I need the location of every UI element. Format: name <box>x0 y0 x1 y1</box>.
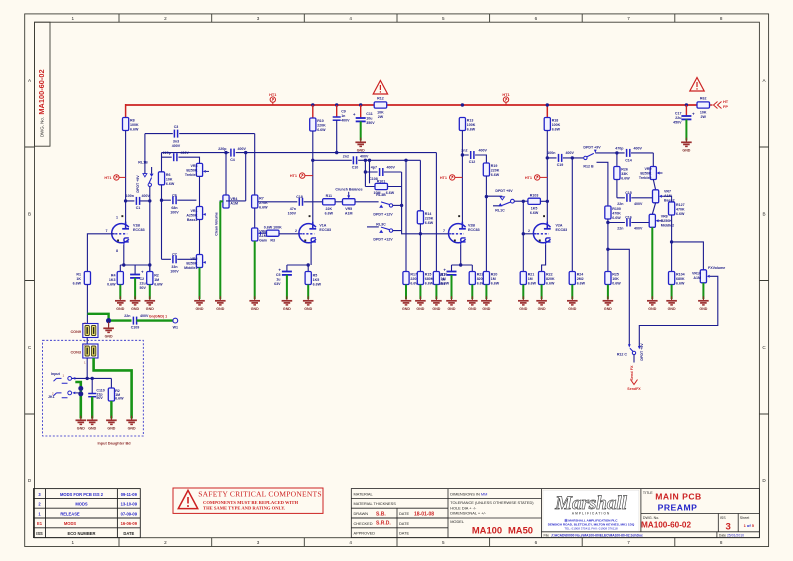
wire: C117 green to ground <box>451 275 453 299</box>
svg-text:6.6W: 6.6W <box>530 211 539 215</box>
svg-text:100V: 100V <box>170 269 179 273</box>
svg-text:FXVolume: FXVolume <box>708 266 725 270</box>
wire: R11 to VR5 <box>335 201 342 203</box>
svg-text:6.6W: 6.6W <box>425 282 434 286</box>
svg-text:VR1: VR1 <box>191 209 198 213</box>
svg-text:6: 6 <box>535 16 538 21</box>
svg-text:B: B <box>28 212 31 217</box>
ground (C117) <box>446 296 457 311</box>
svg-text:R26: R26 <box>621 168 628 172</box>
svg-text:FP: FP <box>723 104 728 109</box>
pot VR3 Treble1 <box>196 163 202 176</box>
svg-text:6.6W: 6.6W <box>154 283 163 287</box>
border column numbers top <box>72 16 723 21</box>
ground (input net) <box>108 322 110 327</box>
capacitor C19 (100n plate coupling) <box>559 154 562 162</box>
svg-text:CON9: CON9 <box>70 330 81 334</box>
Marshall logo <box>543 490 639 531</box>
capacitor C12 <box>471 151 474 159</box>
svg-text:ECC83: ECC83 <box>556 228 568 232</box>
resistor R19 <box>483 163 489 176</box>
revision table grid <box>34 489 141 538</box>
wire: RL3C out to V2B grid <box>393 231 449 234</box>
warning triangle left <box>373 81 387 95</box>
wire: RL1C out <box>514 200 528 202</box>
svg-text:22n: 22n <box>124 314 130 318</box>
wire: HT rail stub to HT-FP <box>710 104 713 106</box>
wire: CON3 pin green to board ground <box>94 358 132 419</box>
svg-text:22n: 22n <box>617 202 623 206</box>
title block row lines left section <box>351 489 448 538</box>
svg-text:File: File <box>544 533 550 537</box>
resistor R127 <box>669 202 675 215</box>
svg-text:DIMENSIONAL + +/-: DIMENSIONAL + +/- <box>450 511 486 516</box>
svg-text:R24: R24 <box>577 273 584 277</box>
svg-text:100K: 100K <box>130 123 139 127</box>
wire: RL3B out <box>393 204 402 206</box>
resistor R20 <box>483 272 489 285</box>
wire: VR8 green to ground <box>651 227 653 299</box>
svg-text:ECC83: ECC83 <box>468 228 480 232</box>
svg-text:MODS: MODS <box>64 521 77 526</box>
svg-text:R14: R14 <box>425 212 432 216</box>
wire: C5 green to ground <box>286 275 288 299</box>
svg-text:5: 5 <box>442 16 445 21</box>
svg-text:HT1: HT1 <box>440 176 447 180</box>
wire: V2A grid <box>523 233 536 235</box>
svg-text:33n: 33n <box>171 265 177 269</box>
wire: C17 to ground (green) <box>685 119 687 140</box>
svg-text:6.6W: 6.6W <box>313 283 322 287</box>
wire: C14 to Treble2 <box>652 153 654 167</box>
svg-text:VR5: VR5 <box>345 207 352 211</box>
resistor R5 <box>305 272 311 285</box>
resistor R1 <box>84 272 90 285</box>
svg-text:4: 4 <box>349 16 352 21</box>
svg-text:C7: C7 <box>172 253 177 257</box>
resistor R6 <box>158 172 164 185</box>
wire: R110 green to ground <box>110 401 112 419</box>
svg-text:MA50: MA50 <box>508 525 533 536</box>
svg-text:R12 C: R12 C <box>617 353 628 357</box>
svg-text:7: 7 <box>627 16 630 21</box>
svg-text:6.6W: 6.6W <box>676 282 685 286</box>
pot VR4 Clean Volume <box>223 195 229 208</box>
svg-text:400V: 400V <box>634 227 643 231</box>
svg-text:22u: 22u <box>140 282 146 286</box>
svg-text:C14: C14 <box>625 159 632 163</box>
svg-text:R12 B: R12 B <box>583 165 594 169</box>
svg-text:HT1: HT1 <box>525 176 532 180</box>
resistor R12 (series in HT rail) <box>374 102 387 108</box>
svg-text:400V: 400V <box>172 144 181 148</box>
pot VR8 Middle2 <box>649 214 655 227</box>
svg-text:A1M: A1M <box>664 194 672 198</box>
pot VR5 Crunch Volume <box>343 199 356 205</box>
svg-text:350V: 350V <box>366 121 375 125</box>
resistor R24 <box>569 272 575 285</box>
wire: jack sleeve green <box>75 382 81 419</box>
svg-text:C16: C16 <box>625 216 632 220</box>
svg-text:6.6W: 6.6W <box>491 173 500 177</box>
svg-text:DATE: DATE <box>123 531 134 536</box>
svg-text:0.6W: 0.6W <box>107 283 116 287</box>
ground (VR6) <box>249 296 260 311</box>
svg-text:6.6W: 6.6W <box>166 182 175 186</box>
capacitor C5 (electrolytic) <box>282 272 292 275</box>
wire: HT rail right segment <box>387 104 697 106</box>
svg-text:R13: R13 <box>467 119 474 123</box>
svg-text:C18: C18 <box>296 195 303 199</box>
svg-text:Input: Input <box>51 372 61 376</box>
svg-text:680K: 680K <box>676 277 685 281</box>
net label HT1 on rail left <box>270 97 275 102</box>
pot VR7 Bass2 <box>653 190 659 203</box>
svg-text:RL3C: RL3C <box>376 222 386 226</box>
capacitor C3 <box>173 130 179 138</box>
ground (VR2) <box>194 296 205 311</box>
capacitor C16 <box>608 222 649 224</box>
svg-text:A250K: A250K <box>186 214 198 218</box>
svg-text:C5: C5 <box>276 273 281 277</box>
svg-text:R7: R7 <box>259 197 264 201</box>
wire: R5 green to ground <box>307 285 309 300</box>
wire: R15 green to ground <box>419 285 421 300</box>
capacitor C10 on bus3 <box>352 156 358 164</box>
svg-text:V2A: V2A <box>556 223 563 227</box>
relay R12C <box>628 344 631 347</box>
svg-text:6.6W: 6.6W <box>73 282 82 286</box>
svg-text:DPDT +9V: DPDT +9V <box>136 175 140 193</box>
resistor R21 <box>520 272 526 285</box>
svg-text:2: 2 <box>164 540 167 545</box>
wire: VR6 green to ground <box>254 241 256 299</box>
svg-text:Gn(GND) 1: Gn(GND) 1 <box>149 315 167 319</box>
svg-text:ECO NUMBER: ECO NUMBER <box>68 531 96 536</box>
svg-text:DPDT +12V: DPDT +12V <box>373 238 393 242</box>
svg-text:HT1: HT1 <box>104 176 111 180</box>
svg-text:Bass1: Bass1 <box>187 218 198 222</box>
svg-text:6.6W: 6.6W <box>552 128 561 132</box>
wire: R25 green to ground <box>607 285 609 300</box>
junction dots on rail <box>311 103 314 106</box>
svg-text:820K: 820K <box>546 277 555 281</box>
svg-text:1: 1 <box>38 511 41 516</box>
svg-text:TITLE: TITLE <box>643 491 653 495</box>
svg-text:1M: 1M <box>528 277 533 281</box>
svg-text:A1M: A1M <box>259 234 267 238</box>
wire: bus3 end drop to R14 <box>419 160 421 211</box>
svg-text:7: 7 <box>627 540 630 545</box>
svg-text:47n: 47n <box>290 207 296 211</box>
svg-text:22u: 22u <box>675 116 681 120</box>
svg-text:2n2: 2n2 <box>343 155 349 159</box>
wire: R2 green to ground <box>149 285 151 300</box>
wire: R3 to V1A grid <box>279 233 300 235</box>
wire: CON9 to CON3 <box>86 338 88 345</box>
pot VR10 FX Volume <box>700 270 706 283</box>
wire: R21 drop <box>522 201 524 271</box>
wire: R104 green to ground <box>671 285 673 300</box>
relay RL3B <box>379 205 383 208</box>
svg-text:100n: 100n <box>126 194 134 198</box>
capacitor C7 <box>162 258 197 260</box>
svg-text:C17: C17 <box>675 111 682 115</box>
svg-text:6.6W: 6.6W <box>425 221 434 225</box>
svg-text:DPDT +12V: DPDT +12V <box>373 212 393 216</box>
svg-text:220K: 220K <box>425 217 434 221</box>
resistor R26 <box>614 167 620 180</box>
wire: VR3 to VR1 <box>199 176 201 206</box>
svg-text:C: C <box>28 345 32 350</box>
svg-text:1M: 1M <box>154 278 159 282</box>
wire: R8 down to V1B plate <box>125 131 127 230</box>
svg-text:4p7: 4p7 <box>371 165 377 169</box>
svg-text:MATERIAL THICKNESS: MATERIAL THICKNESS <box>354 501 397 506</box>
wire: R6 bottom down through C6/C7 <box>161 185 163 259</box>
svg-text:1K: 1K <box>76 277 81 281</box>
svg-text:D: D <box>28 478 32 483</box>
svg-text:400V: 400V <box>140 314 149 318</box>
pot VR9 Treble2 <box>650 167 656 180</box>
svg-text:VR10: VR10 <box>692 272 701 276</box>
wire: HT rail left segment <box>126 104 375 106</box>
svg-text:1K3: 1K3 <box>109 278 116 282</box>
svg-text:A: A <box>762 78 766 83</box>
svg-text:6.6W: 6.6W <box>325 212 334 216</box>
svg-text:HT1: HT1 <box>269 92 277 97</box>
svg-text:6.6W: 6.6W <box>259 206 268 210</box>
wire: R12C to send fx <box>633 355 635 363</box>
svg-text:6.6W: 6.6W <box>386 191 395 195</box>
svg-text:8: 8 <box>720 16 723 21</box>
svg-text:S.R.D.: S.R.D. <box>376 520 391 526</box>
svg-text:6.6W: 6.6W <box>130 128 139 132</box>
svg-text:DRAWN: DRAWN <box>354 511 369 516</box>
border column numbers bottom <box>72 540 723 545</box>
svg-text:1u: 1u <box>276 278 280 282</box>
svg-text:400V: 400V <box>634 202 643 206</box>
wire: V1B cathode rail <box>120 245 150 274</box>
wire: R22 green to ground <box>541 285 543 300</box>
svg-text:R3: R3 <box>270 239 275 243</box>
title block logo/title divider <box>542 489 760 538</box>
ground (C11) <box>355 138 366 153</box>
border row ticks left <box>25 147 35 414</box>
ground (R5) <box>303 296 314 311</box>
svg-text:APPROVED: APPROVED <box>354 531 376 536</box>
svg-text:VR3: VR3 <box>191 164 198 168</box>
wire: crunch feed <box>226 200 323 203</box>
wire: rail drop to R18 <box>546 105 548 118</box>
wire: green elbow to C109 net <box>87 314 108 319</box>
svg-text:2W: 2W <box>378 115 384 119</box>
svg-text:SAFETY CRITICAL COMPONENTS: SAFETY CRITICAL COMPONENTS <box>198 490 322 499</box>
svg-text:RL3B: RL3B <box>376 193 386 197</box>
wire: R100 down to R25 <box>607 219 609 272</box>
capacitor C14 (470p) <box>627 149 630 157</box>
svg-text:100K: 100K <box>552 123 561 127</box>
net label HT-FP with chevron <box>714 102 722 109</box>
ground (R4) <box>115 296 126 311</box>
ground (C2) <box>130 296 141 311</box>
svg-text:1n: 1n <box>341 114 345 118</box>
capacitor C8 220p on bus2 <box>229 149 235 157</box>
svg-text:MODS FOR PCB ISS 2: MODS FOR PCB ISS 2 <box>60 492 104 497</box>
svg-text:400V: 400V <box>341 119 350 123</box>
svg-text:B: B <box>762 212 765 217</box>
svg-text:R16: R16 <box>441 273 448 277</box>
ground (VR8) <box>647 296 658 311</box>
ground (board) <box>126 416 137 431</box>
svg-text:DATE: DATE <box>399 521 409 526</box>
svg-text:B250K: B250K <box>186 169 198 173</box>
ground (clean volume) <box>215 296 226 311</box>
ground (R20) <box>481 296 492 311</box>
ground (R110) <box>106 416 117 431</box>
svg-text:Gain: Gain <box>259 239 267 243</box>
svg-text:R10: R10 <box>317 119 324 123</box>
svg-text:ECC83: ECC83 <box>319 228 331 232</box>
svg-text:V1B: V1B <box>133 223 140 227</box>
svg-text:3: 3 <box>257 540 260 545</box>
wire: bus3 drop to crunch RC <box>369 160 371 183</box>
pot VR6 Gain <box>252 228 258 241</box>
svg-text:MA100-60-02: MA100-60-02 <box>641 521 692 530</box>
svg-text:09-11-09: 09-11-09 <box>121 492 138 497</box>
wire: R10 down to V1A plate <box>312 131 314 229</box>
svg-text:400V: 400V <box>360 155 369 159</box>
ground (R23) <box>467 296 478 311</box>
svg-text:Treble2: Treble2 <box>639 176 652 180</box>
svg-text:33K: 33K <box>621 172 628 176</box>
ground (C110) <box>87 416 98 431</box>
svg-text:R21: R21 <box>528 273 535 277</box>
svg-text:PREAMP: PREAMP <box>658 502 698 512</box>
svg-text:DWG. No.: DWG. No. <box>40 117 45 137</box>
border row letters right <box>762 78 766 483</box>
wire: rail drop to R8 <box>125 104 127 118</box>
capacitor C6 <box>162 199 197 201</box>
svg-text:VR8: VR8 <box>661 214 668 218</box>
svg-text:400V: 400V <box>566 151 575 155</box>
wire: VR5 to RL3B <box>355 201 379 203</box>
svg-text:MODS: MODS <box>75 502 88 507</box>
svg-text:7: 7 <box>443 229 445 233</box>
svg-text:D: D <box>762 478 766 483</box>
resistor R17 <box>403 272 409 285</box>
capacitor C2 (electrolytic) <box>130 275 140 278</box>
svg-text:R5: R5 <box>313 274 318 278</box>
warning triangle right <box>690 78 704 92</box>
resistor R18 <box>544 118 550 131</box>
wire: C4 run <box>162 157 200 163</box>
border column ticks top <box>119 14 675 22</box>
svg-text:100V: 100V <box>288 211 297 215</box>
resistor R104 <box>669 272 675 285</box>
resistor R7 <box>252 195 258 208</box>
svg-text:R6: R6 <box>166 173 171 177</box>
wire: VR1 to VR2 <box>199 220 201 255</box>
svg-text:R19: R19 <box>491 164 498 168</box>
svg-text:3: 3 <box>257 16 260 21</box>
svg-text:50V: 50V <box>140 286 147 290</box>
svg-text:C3: C3 <box>174 125 179 129</box>
wire: VR9 to VR7 <box>653 180 655 190</box>
border column ticks bottom <box>119 538 675 547</box>
title block red entries <box>376 511 533 535</box>
title block tolerance/model lines <box>448 489 542 538</box>
svg-text:2: 2 <box>38 502 41 507</box>
wire: CON3 down to jack rail <box>72 358 112 378</box>
connector CON3 <box>83 344 98 358</box>
wire: VR2 green to ground <box>199 268 201 300</box>
wire: R6 top to bus2 <box>161 153 163 172</box>
junction blob <box>106 318 111 323</box>
wire: R12B out bus <box>595 152 653 154</box>
net label HT1 on rail right <box>503 97 508 102</box>
svg-text:470K: 470K <box>612 212 621 216</box>
ground (R17) <box>401 296 412 311</box>
wire: bus1 <box>145 133 255 135</box>
svg-text:A1M: A1M <box>345 212 353 216</box>
svg-text:400V: 400V <box>387 165 396 169</box>
svg-text:4: 4 <box>349 540 352 545</box>
ground (R104) <box>666 296 677 311</box>
svg-text:1M: 1M <box>491 277 496 281</box>
svg-text:0.6W 100K: 0.6W 100K <box>264 226 282 230</box>
wire: R23 green to ground <box>471 285 473 300</box>
svg-text:1 of 5: 1 of 5 <box>744 523 755 528</box>
svg-text:B250K: B250K <box>186 262 198 266</box>
wire: VR10 wiper loop to FX switch <box>639 276 718 346</box>
svg-text:R12: R12 <box>377 97 384 101</box>
svg-text:220p: 220p <box>163 151 172 155</box>
svg-text:R11: R11 <box>326 194 332 198</box>
svg-text:Treble1: Treble1 <box>185 173 198 177</box>
wire: R18 down to V2A plate <box>546 131 548 230</box>
svg-text:680K: 680K <box>425 277 434 281</box>
svg-text:1: 1 <box>72 540 75 545</box>
svg-text:C: C <box>762 345 766 350</box>
relay RL3C <box>367 226 379 228</box>
capacitor C9 <box>336 105 338 117</box>
resistor R4 <box>117 272 123 285</box>
ground (R24) <box>567 296 578 311</box>
svg-text:18-01-08: 18-01-08 <box>414 511 434 517</box>
svg-text:63V: 63V <box>274 282 281 286</box>
resistor R25 <box>605 272 611 285</box>
svg-text:22n: 22n <box>617 227 623 231</box>
svg-text:6.6W: 6.6W <box>115 397 124 401</box>
wire: C2 green to ground <box>134 278 136 299</box>
pot VR6 wiper arrow to R3 <box>258 232 261 235</box>
capacitor C1 <box>136 197 139 205</box>
svg-text:6.6W: 6.6W <box>621 177 630 181</box>
svg-text:C12: C12 <box>469 160 476 164</box>
svg-text:A1M: A1M <box>693 276 701 280</box>
resistor R101 <box>375 183 388 189</box>
svg-text:RL1C: RL1C <box>495 209 505 213</box>
svg-text:R101: R101 <box>377 179 386 183</box>
svg-text:Input Daughter Bd: Input Daughter Bd <box>97 441 131 445</box>
svg-text:B250K: B250K <box>640 172 652 176</box>
svg-text:R104: R104 <box>676 273 685 277</box>
svg-text:C10: C10 <box>352 166 359 170</box>
svg-text:A: A <box>28 78 32 83</box>
svg-text:470K: 470K <box>676 208 685 212</box>
wire: V2A cathode <box>542 245 546 272</box>
